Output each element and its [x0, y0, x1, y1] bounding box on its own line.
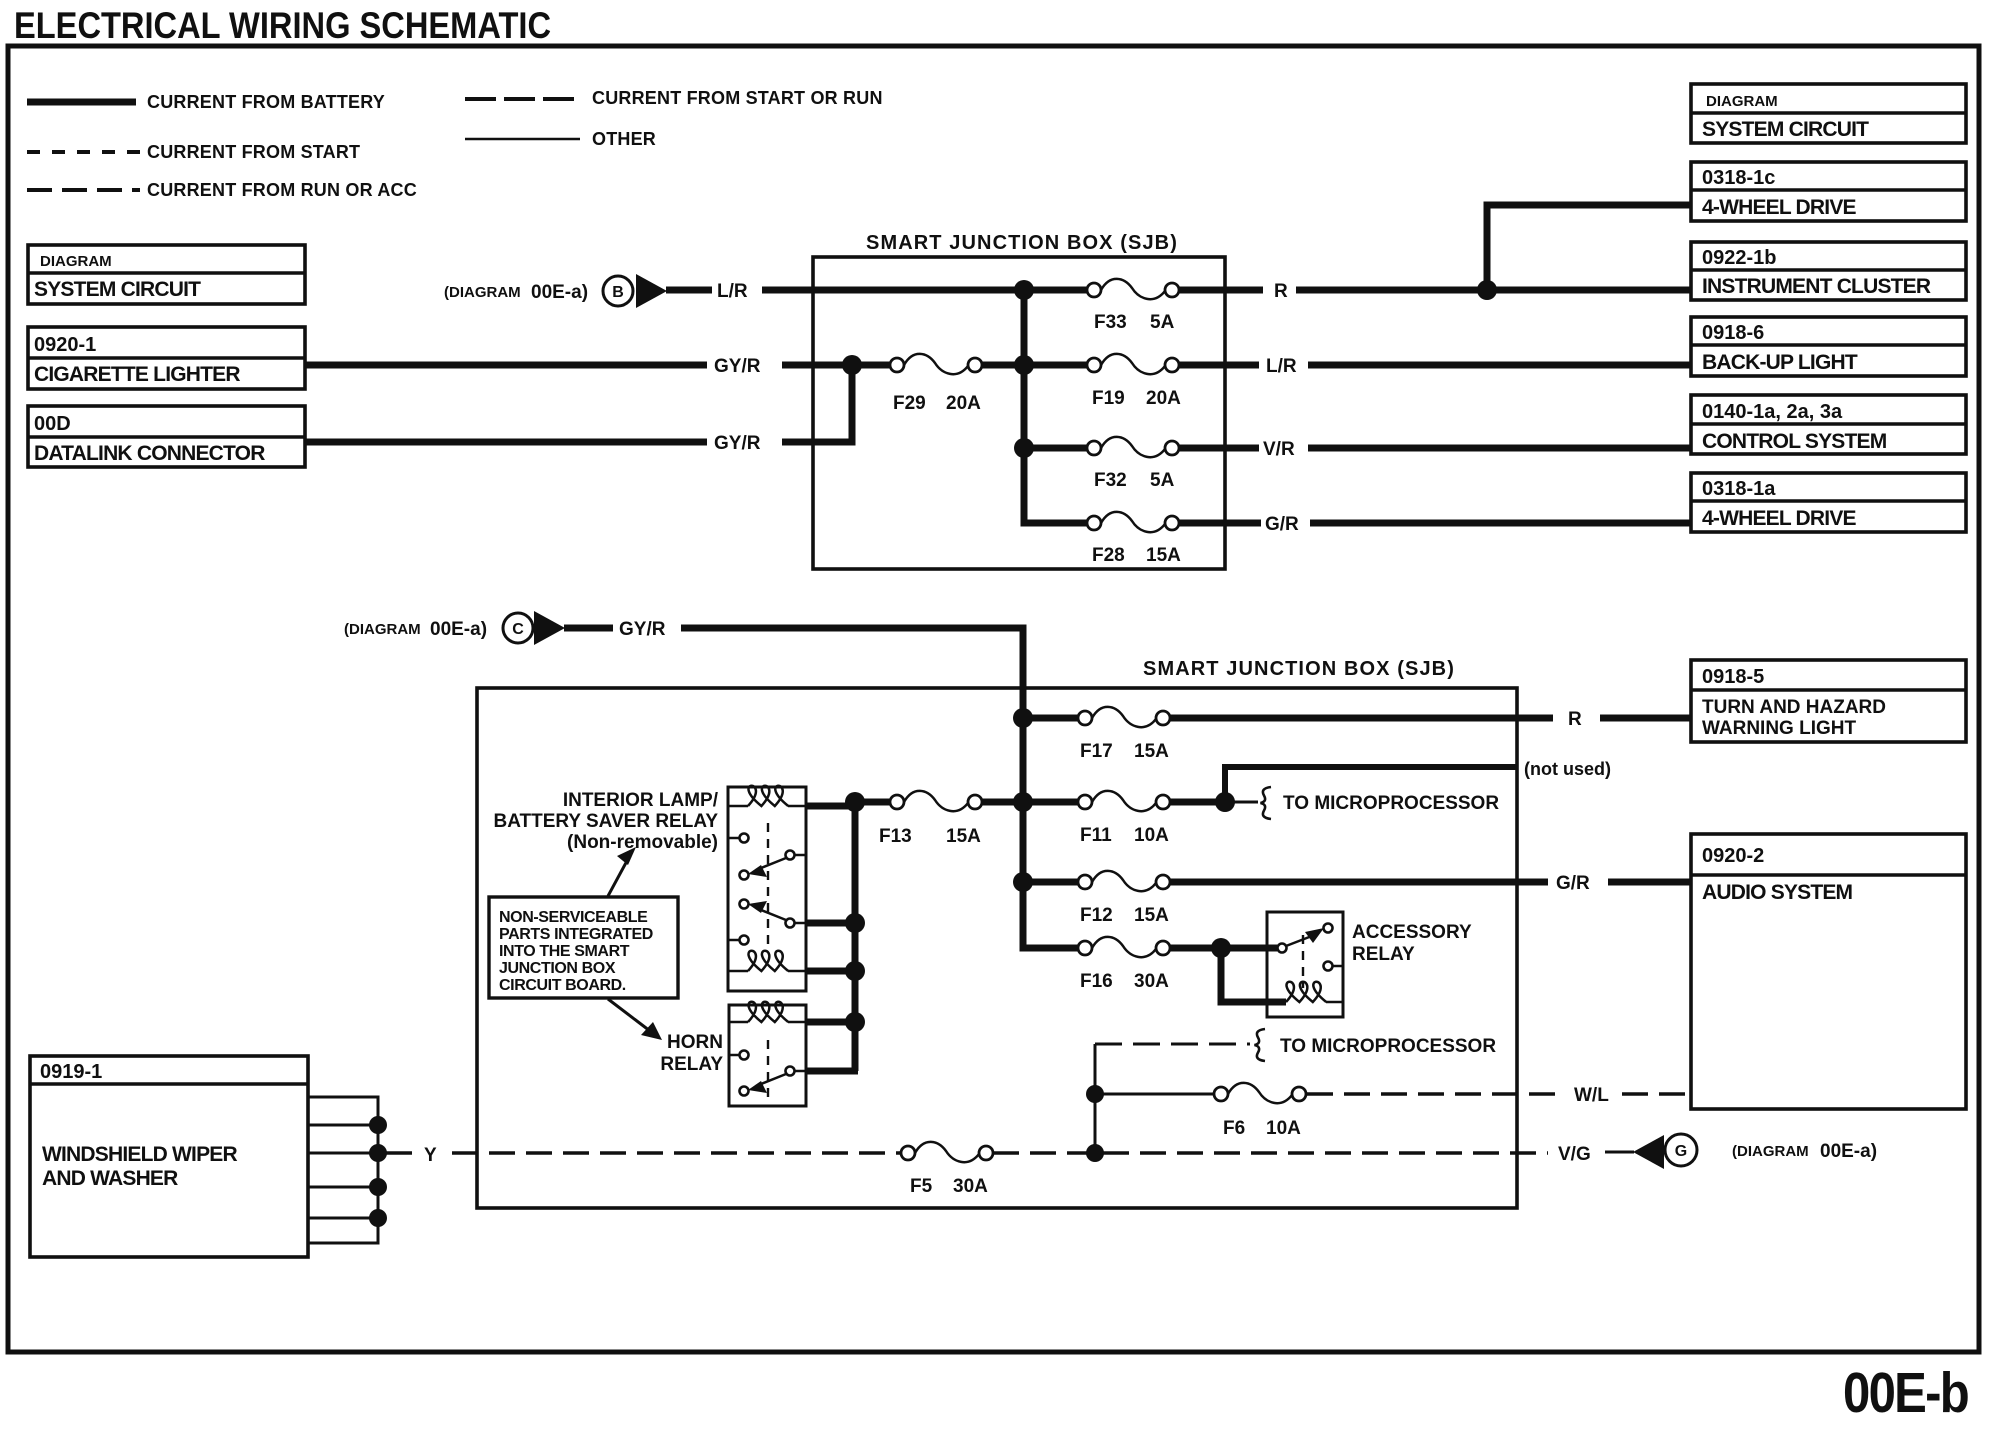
svg-text:0920-2: 0920-2: [1702, 845, 1764, 867]
accessory relay output pin: [1324, 962, 1344, 971]
horn relay pin 2: [740, 1087, 749, 1096]
junction bus/F12: [1013, 872, 1033, 892]
svg-text:00E-b: 00E-b: [1843, 1361, 1968, 1425]
svg-text:INTO THE SMART: INTO THE SMART: [499, 943, 630, 960]
fuse F28 15A: [1087, 512, 1181, 566]
svg-text:DATALINK CONNECTOR: DATALINK CONNECTOR: [34, 442, 265, 465]
junction W/L node: [1086, 1085, 1104, 1103]
svg-text:TO MICROPROCESSOR: TO MICROPROCESSOR: [1280, 1036, 1496, 1057]
wire branch up to 4-wheel drive 0318-1c: [1487, 205, 1691, 290]
svg-text:R: R: [1568, 709, 1582, 730]
fuse F6 10A: [1214, 1083, 1306, 1139]
wire F29 row: [852, 362, 1024, 369]
svg-text:5A: 5A: [1150, 312, 1175, 333]
svg-text:R: R: [1274, 281, 1288, 302]
smart junction box (SJB) lower: [477, 658, 1517, 1208]
fuse F17 15A: [1078, 707, 1170, 762]
svg-text:00D: 00D: [34, 413, 71, 435]
svg-text:F5: F5: [910, 1176, 933, 1197]
interior relay pin 3: [740, 900, 749, 909]
svg-text:0318-1c: 0318-1c: [1702, 167, 1775, 189]
svg-text:(DIAGRAM: (DIAGRAM: [444, 284, 521, 301]
wire F16 row: [1023, 882, 1277, 948]
svg-text:15A: 15A: [946, 826, 981, 847]
svg-text:15A: 15A: [1146, 545, 1181, 566]
svg-text:SYSTEM CIRCUIT: SYSTEM CIRCUIT: [34, 278, 201, 301]
legend line: current from start: [27, 142, 360, 162]
svg-text:G/R: G/R: [1556, 873, 1590, 894]
label W/L: [1574, 1085, 1609, 1106]
fuse F13 15A: [879, 791, 982, 847]
junction relay bus / lower coil: [845, 961, 865, 981]
horn relay coil: [729, 1002, 806, 1022]
wire Y dashed from wiper: [386, 1151, 901, 1155]
label TO MICROPROCESSOR (lower): [1280, 1036, 1496, 1057]
fuse F12 15A: [1078, 871, 1170, 926]
legend line: other: [465, 129, 656, 149]
box: 00D DATALINK CONNECTOR: [28, 406, 305, 467]
junction R branch: [1477, 280, 1497, 300]
sheet number 00E-b: [1843, 1361, 1968, 1425]
accessory relay switch arm: [1286, 928, 1324, 946]
svg-text:TO MICROPROCESSOR: TO MICROPROCESSOR: [1283, 793, 1499, 814]
svg-text:RELAY: RELAY: [660, 1054, 723, 1075]
legend line: current from start or run: [465, 88, 883, 108]
svg-text:TURN AND HAZARD: TURN AND HAZARD: [1702, 697, 1886, 718]
svg-text:CURRENT FROM START: CURRENT FROM START: [147, 142, 360, 162]
label V/R (to control system): [1263, 439, 1295, 460]
svg-text:F12: F12: [1080, 905, 1113, 926]
box: 0922-1b INSTRUMENT CLUSTER: [1691, 242, 1966, 300]
svg-text:(DIAGRAM: (DIAGRAM: [1732, 1143, 1809, 1160]
svg-text:ELECTRICAL WIRING SCHEMATIC: ELECTRICAL WIRING SCHEMATIC: [14, 5, 551, 46]
junction relay bus / F13: [845, 792, 865, 812]
fuse F5 30A: [901, 1142, 993, 1197]
wire dashed W/L to audio: [1307, 1092, 1691, 1096]
svg-text:F28: F28: [1092, 545, 1125, 566]
horn relay arm: [748, 1074, 786, 1093]
junction relay bus / arm2: [845, 913, 865, 933]
svg-text:OTHER: OTHER: [592, 129, 656, 149]
svg-text:30A: 30A: [1134, 971, 1169, 992]
connector B (DIAGRAM 00E-a): [444, 274, 667, 308]
label L/R (to back-up light): [1266, 356, 1297, 377]
wire dashed F5 to junction: [993, 1151, 1088, 1155]
svg-text:BATTERY SAVER RELAY: BATTERY SAVER RELAY: [493, 811, 718, 832]
wire F32 row to V/R output: [1024, 445, 1691, 452]
brace to microprocessor (lower): [1255, 1029, 1266, 1061]
interior relay dashed link: [767, 823, 769, 948]
bus vertical (lower SJB): [1020, 718, 1027, 948]
wire F13 row: [855, 799, 1023, 806]
label R (to instrument cluster): [1274, 281, 1288, 302]
interior relay arm 1: [748, 858, 786, 877]
label Y: [424, 1145, 437, 1166]
svg-text:F13: F13: [879, 826, 912, 847]
wire F11 row: [1023, 799, 1225, 806]
fuse F19 20A: [1087, 354, 1181, 409]
legend line: current from run or acc: [27, 180, 417, 200]
wire F28 row to G/R output: [1024, 448, 1691, 523]
junction bus/F11: [1013, 792, 1033, 812]
wire horn relay coil to bus: [806, 1019, 855, 1026]
svg-text:PARTS INTEGRATED: PARTS INTEGRATED: [499, 926, 653, 943]
interior relay pin 4: [728, 936, 749, 945]
wire to accessory relay coil: [1221, 948, 1286, 1002]
svg-text:Y: Y: [424, 1145, 437, 1166]
connector G (DIAGRAM 00E-a): [1605, 1134, 1877, 1169]
junction at bus / F19: [1014, 355, 1034, 375]
label L/R: [717, 281, 748, 302]
box: DIAGRAM / SYSTEM CIRCUIT (left): [28, 245, 305, 304]
wire (not used): [1225, 767, 1517, 802]
svg-text:0318-1a: 0318-1a: [1702, 478, 1776, 500]
svg-text:0918-5: 0918-5: [1702, 666, 1764, 688]
wire dashed to microprocessor (lower): [1095, 1043, 1250, 1046]
label GY/R (cigarette lighter): [714, 356, 761, 377]
svg-text:10A: 10A: [1266, 1118, 1301, 1139]
svg-text:G/R: G/R: [1265, 514, 1299, 535]
wire F19 row to L/R output: [1024, 362, 1691, 369]
svg-text:CIGARETTE LIGHTER: CIGARETTE LIGHTER: [34, 363, 240, 386]
fuse F32 5A: [1087, 437, 1179, 491]
svg-text:15A: 15A: [1134, 741, 1169, 762]
svg-text:SMART JUNCTION BOX (SJB): SMART JUNCTION BOX (SJB): [1143, 658, 1455, 680]
svg-text:HORN: HORN: [667, 1032, 723, 1053]
label GY/R (datalink): [714, 433, 761, 454]
svg-text:SMART JUNCTION BOX (SJB): SMART JUNCTION BOX (SJB): [866, 232, 1178, 254]
svg-text:F11: F11: [1080, 825, 1112, 846]
wire L/R from connector B into SJB: [666, 287, 1027, 294]
wire interior relay coil to bus: [806, 803, 855, 810]
junction bus/F17: [1013, 708, 1033, 728]
interior relay arm 1 contact: [786, 851, 807, 860]
svg-text:AND WASHER: AND WASHER: [42, 1167, 178, 1190]
interior relay pin 2: [740, 871, 749, 880]
svg-text:W/L: W/L: [1574, 1085, 1609, 1106]
leader arrow to interior relay label: [608, 847, 636, 896]
wire dashed V/G to connector G: [1103, 1151, 1548, 1155]
svg-text:30A: 30A: [953, 1176, 988, 1197]
wire horn relay arm to bus: [806, 1068, 858, 1075]
svg-text:20A: 20A: [1146, 388, 1181, 409]
accessory relay label: [1352, 922, 1472, 965]
svg-text:(DIAGRAM: (DIAGRAM: [344, 621, 421, 638]
page title: [14, 5, 551, 46]
svg-text:F29: F29: [893, 393, 926, 414]
svg-text:F6: F6: [1223, 1118, 1245, 1139]
svg-text:F33: F33: [1094, 312, 1127, 333]
wire GY/R from datalink connector: [305, 365, 852, 442]
box: 0918-6 BACK-UP LIGHT: [1691, 317, 1966, 376]
svg-text:00E-a): 00E-a): [1820, 1141, 1877, 1162]
label (not used): [1524, 759, 1611, 779]
accessory relay dashed link: [1302, 935, 1304, 988]
legend line: current from battery: [27, 92, 385, 112]
svg-text:SYSTEM CIRCUIT: SYSTEM CIRCUIT: [1702, 118, 1869, 141]
svg-text:15A: 15A: [1134, 905, 1169, 926]
svg-text:V/R: V/R: [1263, 439, 1295, 460]
fuse F29 20A: [890, 354, 982, 414]
interior lamp / battery saver relay label: [493, 790, 718, 853]
fuse F33 5A: [1087, 279, 1179, 333]
svg-text:GY/R: GY/R: [714, 433, 761, 454]
svg-text:F19: F19: [1092, 388, 1125, 409]
wire F12 row to G/R output (audio): [1023, 879, 1691, 886]
junction F11 / not used: [1215, 792, 1235, 812]
svg-text:AUDIO SYSTEM: AUDIO SYSTEM: [1702, 881, 1853, 904]
box: 0918-5 TURN AND HAZARD WARNING LIGHT: [1691, 660, 1966, 742]
svg-text:JUNCTION BOX: JUNCTION BOX: [499, 960, 616, 977]
svg-text:BACK-UP LIGHT: BACK-UP LIGHT: [1702, 351, 1858, 374]
junction GY/R: [842, 355, 862, 375]
horn relay label: [660, 1032, 723, 1075]
box: 0318-1c 4-WHEEL DRIVE: [1691, 162, 1966, 221]
svg-text:DIAGRAM: DIAGRAM: [40, 253, 112, 270]
svg-text:F32: F32: [1094, 470, 1127, 491]
svg-text:L/R: L/R: [1266, 356, 1297, 377]
connector C (DIAGRAM 00E-a): [344, 611, 565, 645]
interior relay upper coil: [728, 786, 806, 806]
svg-text:NON-SERVICEABLE: NON-SERVICEABLE: [499, 909, 648, 926]
svg-text:B: B: [612, 284, 624, 301]
horn relay pin 1: [729, 1051, 749, 1060]
svg-text:0140-1a, 2a, 3a: 0140-1a, 2a, 3a: [1702, 401, 1843, 423]
svg-text:RELAY: RELAY: [1352, 944, 1415, 965]
fuse F11 10A: [1078, 791, 1170, 846]
wire stub to microprocessor (upper): [1225, 801, 1258, 804]
svg-text:0918-6: 0918-6: [1702, 322, 1764, 344]
interior relay arm 2: [748, 901, 786, 920]
junction relay bus / horn coil: [845, 1012, 865, 1032]
svg-text:WARNING LIGHT: WARNING LIGHT: [1702, 718, 1856, 739]
svg-text:GY/R: GY/R: [714, 356, 761, 377]
svg-text:V/G: V/G: [1558, 1144, 1591, 1165]
box: 0920-1 CIGARETTE LIGHTER: [28, 327, 305, 389]
svg-text:0920-1: 0920-1: [34, 334, 96, 356]
label R (to turn and hazard): [1568, 709, 1582, 730]
label G/R (to 4-wheel drive 0318-1a): [1265, 514, 1299, 535]
wire F6 row: [1095, 1093, 1214, 1096]
svg-text:CURRENT FROM RUN OR ACC: CURRENT FROM RUN OR ACC: [147, 180, 417, 200]
svg-text:C: C: [512, 621, 524, 638]
svg-text:L/R: L/R: [717, 281, 748, 302]
note box: non-serviceable parts: [489, 897, 678, 998]
junction at bus / F32: [1014, 438, 1034, 458]
junction V/G node: [1086, 1144, 1104, 1162]
svg-text:(Non-removable): (Non-removable): [567, 832, 718, 853]
svg-text:0922-1b: 0922-1b: [1702, 247, 1777, 269]
accessory relay coil: [1267, 982, 1343, 1002]
svg-text:CIRCUIT BOARD.: CIRCUIT BOARD.: [499, 977, 626, 994]
svg-text:WINDSHIELD WIPER: WINDSHIELD WIPER: [42, 1143, 237, 1166]
accessory relay NO contact pin: [1324, 924, 1333, 933]
junction F16 / accessory relay coil: [1211, 938, 1231, 958]
svg-text:ACCESSORY: ACCESSORY: [1352, 922, 1472, 943]
svg-text:4-WHEEL DRIVE: 4-WHEEL DRIVE: [1702, 196, 1857, 219]
brace to microprocessor (upper): [1261, 787, 1272, 819]
box: 0919-1 WINDSHIELD WIPER AND WASHER: [30, 1056, 308, 1257]
label G/R (to audio system): [1556, 873, 1590, 894]
wire F33 row to R output: [1024, 287, 1691, 294]
junction wiper pin 3: [369, 1144, 387, 1162]
interior relay lower coil: [728, 951, 806, 971]
wiper connector pins: [308, 1097, 378, 1243]
junction wiper pin 4: [369, 1178, 387, 1196]
wire interior relay arm 2 to bus: [806, 920, 855, 927]
svg-text:GY/R: GY/R: [619, 619, 666, 640]
relay bus vertical: [852, 802, 859, 1071]
svg-text:F16: F16: [1080, 971, 1113, 992]
svg-text:F17: F17: [1080, 741, 1113, 762]
svg-text:00E-a): 00E-a): [430, 619, 487, 640]
junction wiper pin 5: [369, 1209, 387, 1227]
box: DIAGRAM / SYSTEM CIRCUIT (right): [1691, 84, 1966, 143]
bus vertical (upper SJB): [1021, 290, 1028, 523]
wire GY/R from connector C: [564, 628, 1023, 718]
svg-text:INSTRUMENT CLUSTER: INSTRUMENT CLUSTER: [1702, 275, 1931, 298]
svg-text:4-WHEEL DRIVE: 4-WHEEL DRIVE: [1702, 507, 1857, 530]
svg-text:INTERIOR LAMP/: INTERIOR LAMP/: [563, 790, 719, 811]
interior relay box: [728, 787, 806, 991]
accessory relay common pin: [1278, 944, 1287, 953]
accessory relay box: [1267, 912, 1343, 1017]
wire junction risers: [1094, 1044, 1097, 1153]
horn relay arm contact: [786, 1067, 807, 1076]
svg-text:CONTROL SYSTEM: CONTROL SYSTEM: [1702, 430, 1887, 453]
svg-text:(not used): (not used): [1524, 759, 1611, 779]
box: 0318-1a 4-WHEEL DRIVE: [1691, 473, 1966, 532]
svg-text:20A: 20A: [946, 393, 981, 414]
svg-text:10A: 10A: [1134, 825, 1169, 846]
svg-text:CURRENT FROM BATTERY: CURRENT FROM BATTERY: [147, 92, 385, 112]
label GY/R (connector C): [619, 619, 666, 640]
wire F17 row to R output (turn and hazard): [1023, 715, 1691, 722]
svg-text:00E-a): 00E-a): [531, 282, 588, 303]
svg-text:5A: 5A: [1150, 470, 1175, 491]
svg-text:0919-1: 0919-1: [40, 1061, 102, 1083]
interior relay arm 2 contact: [786, 919, 807, 928]
interior relay pin 1: [728, 834, 749, 843]
horn relay box: [729, 1005, 806, 1106]
box: 0920-2 AUDIO SYSTEM: [1691, 834, 1966, 1109]
horn relay dashed link: [767, 1040, 769, 1098]
leader arrow to horn relay label: [608, 999, 662, 1040]
smart junction box (SJB) upper: [813, 232, 1225, 569]
svg-text:G: G: [1675, 1143, 1687, 1160]
wire interior relay lower coil to bus: [806, 968, 855, 975]
fuse F16 30A: [1078, 937, 1170, 992]
junction at bus / L/R: [1014, 280, 1034, 300]
label TO MICROPROCESSOR (upper): [1283, 793, 1499, 814]
wire GY/R from cigarette lighter: [305, 362, 852, 369]
junction wiper pin 2: [369, 1116, 387, 1134]
svg-text:CURRENT FROM START OR RUN: CURRENT FROM START OR RUN: [592, 88, 883, 108]
label V/G: [1558, 1144, 1591, 1165]
box: 0140-1a,2a,3a CONTROL SYSTEM: [1691, 395, 1966, 454]
svg-text:DIAGRAM: DIAGRAM: [1706, 93, 1778, 110]
